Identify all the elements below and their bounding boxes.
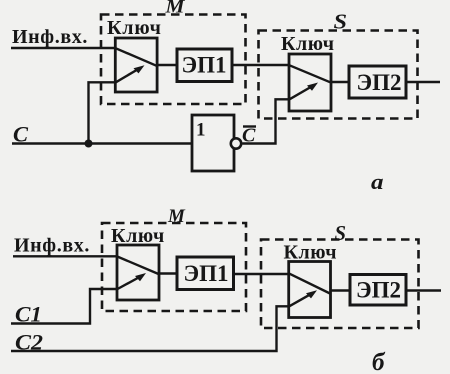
label Инф.вх. (top) xyxy=(12,26,88,48)
svg-text:а: а xyxy=(371,169,384,194)
label Инф.вх. (bottom) xyxy=(14,235,90,257)
wire: information input to switch 1 xyxy=(11,47,115,49)
svg-text:1: 1 xyxy=(196,120,206,141)
wire: EP1 output to switch 2 xyxy=(232,64,289,66)
switch S1 box (Ключ) xyxy=(115,38,157,92)
wire: trigger output (bottom) xyxy=(406,289,441,291)
svg-text:Ключ: Ключ xyxy=(281,33,335,55)
wire: C branch up to switch 1 control input xyxy=(89,82,116,143)
dashed box M (master, bottom) xyxy=(102,223,246,311)
switch S2 contact diagonal xyxy=(290,65,331,82)
svg-text:М: М xyxy=(167,206,186,227)
label C2 (second clock) xyxy=(15,330,43,355)
label a (figure part label) xyxy=(371,169,384,194)
wire: C-bar to switch 2 control input xyxy=(242,99,289,143)
label S (top) xyxy=(334,10,348,34)
label Ключ (switch 2) xyxy=(281,33,335,55)
wire: switch 1 output to EP1 xyxy=(157,64,177,66)
svg-text:М: М xyxy=(164,0,185,18)
block ЭП2 (bottom) xyxy=(350,275,406,306)
label S (bottom) xyxy=(335,221,347,245)
inverter U1 (NOT gate, "1") xyxy=(192,115,234,171)
label M (bottom) xyxy=(167,206,186,227)
switch S2 box (Ключ) xyxy=(289,54,331,111)
svg-text:ЭП2: ЭП2 xyxy=(357,70,402,95)
inverter output bubble xyxy=(231,138,241,148)
label C (clock input) xyxy=(13,122,28,147)
wire: switch 4 output to EP2 xyxy=(331,289,351,291)
switch S3 contact diagonal xyxy=(118,257,159,274)
switch S2 moving contact arrow xyxy=(290,83,319,100)
wire: clock C to inverter xyxy=(12,142,192,144)
wire: trigger output (top) xyxy=(406,81,440,83)
block ЭП1 (top) xyxy=(177,49,232,82)
switch S1 moving contact arrow xyxy=(116,65,145,82)
switch S3 moving contact arrow xyxy=(118,273,147,289)
wire: EP1 output to switch 4 xyxy=(234,273,290,275)
label M (top) xyxy=(164,0,185,18)
switch S4 box (Ключ) xyxy=(289,262,331,318)
svg-text:ЭП1: ЭП1 xyxy=(182,53,227,78)
switch S4 moving contact arrow xyxy=(289,290,317,306)
junction node on C line xyxy=(85,140,93,148)
label Ключ (switch 4) xyxy=(284,242,338,264)
wire: C1 to switch 3 control input xyxy=(11,289,117,324)
svg-text:Инф.вх.: Инф.вх. xyxy=(14,235,90,257)
dashed box S (slave, top) xyxy=(259,31,418,119)
wire: switch 3 output to EP1 xyxy=(159,272,177,274)
block ЭП1 (bottom) xyxy=(177,257,234,290)
switch S4 contact diagonal xyxy=(289,274,330,294)
svg-text:S: S xyxy=(334,10,348,34)
svg-text:ЭП1: ЭП1 xyxy=(184,261,229,286)
switch S3 box (Ключ) xyxy=(117,245,159,300)
svg-text:Ключ: Ключ xyxy=(107,17,162,39)
svg-text:ЭП2: ЭП2 xyxy=(356,278,401,303)
svg-text:б: б xyxy=(372,349,386,374)
wire: information input to switch 3 xyxy=(13,255,117,257)
block ЭП2 (top) xyxy=(349,66,406,98)
dashed box S (slave, bottom) xyxy=(261,240,419,329)
wire: C2 to switch 4 control input xyxy=(11,306,289,351)
label Ключ (switch 3) xyxy=(111,225,165,247)
label C-bar (inverted clock) xyxy=(242,125,256,147)
label Ключ (switch 1) xyxy=(107,17,162,39)
dashed box M (master, top) xyxy=(101,15,246,105)
label b (figure part label) xyxy=(372,349,386,374)
svg-text:Инф.вх.: Инф.вх. xyxy=(12,26,88,48)
wire: switch 2 output to EP2 xyxy=(331,81,349,83)
label C1 (first clock) xyxy=(15,302,42,327)
switch S1 contact diagonal xyxy=(116,48,157,66)
